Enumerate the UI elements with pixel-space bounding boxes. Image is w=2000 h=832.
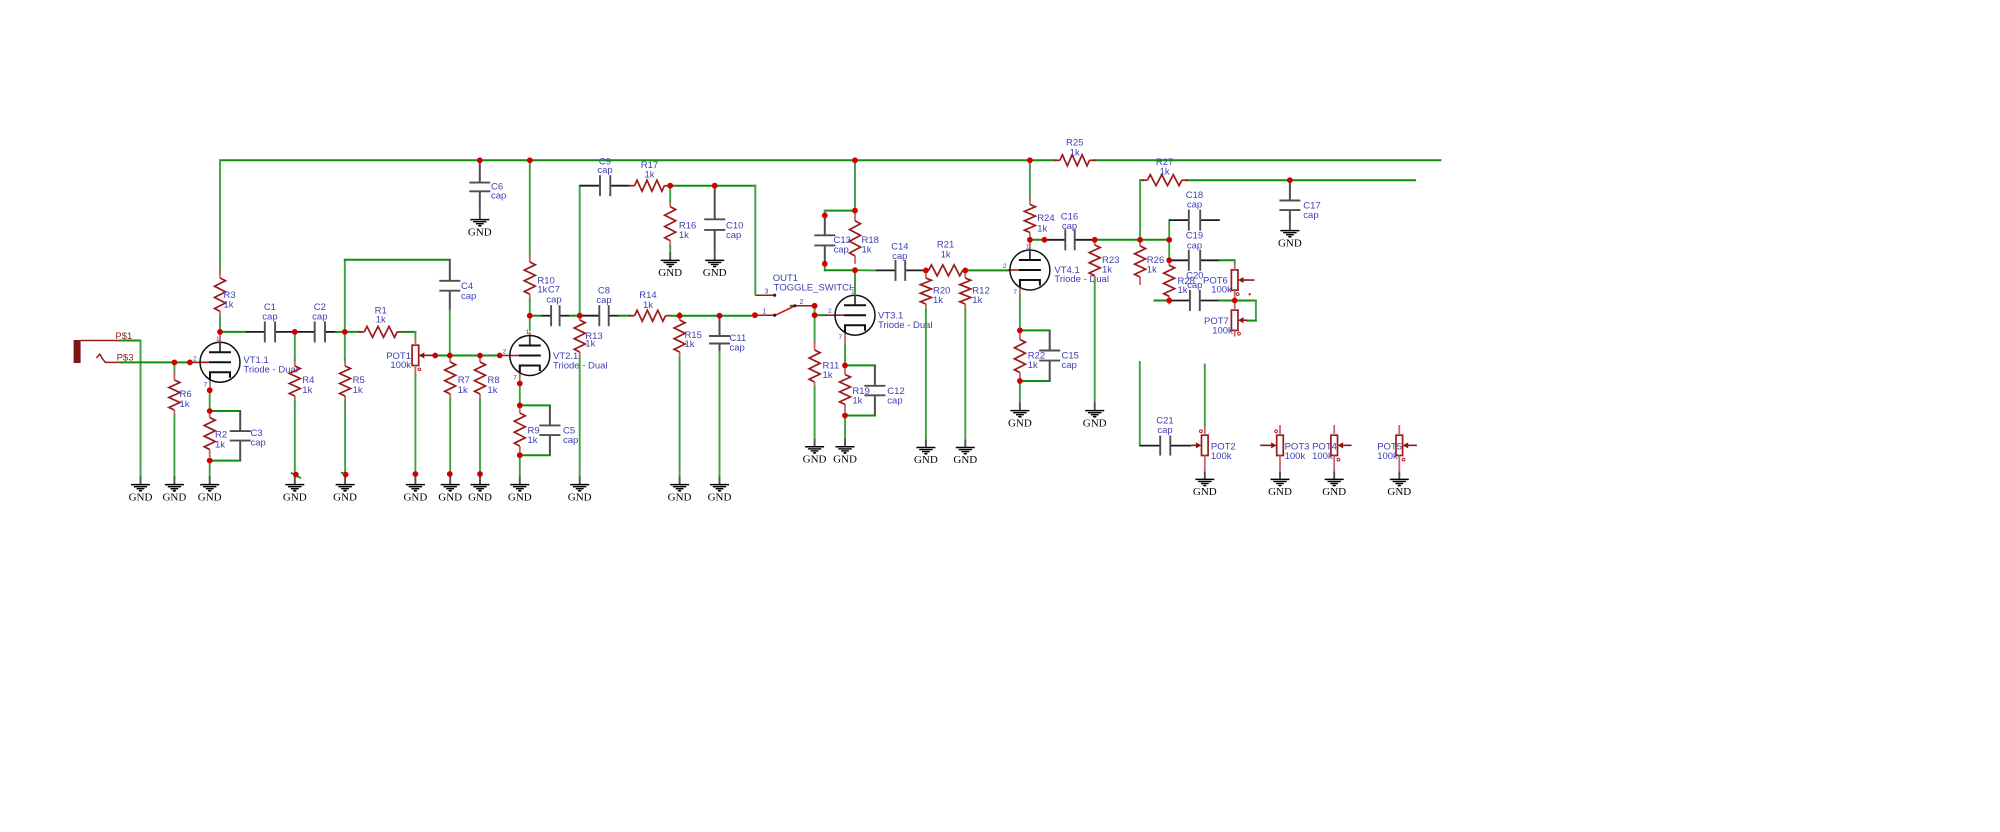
svg-text:7: 7 (1013, 289, 1017, 296)
resistor R22 (1014, 332, 1045, 381)
junction VT2 cathode pin (517, 381, 523, 387)
junction (477, 353, 483, 359)
svg-text:GND: GND (953, 454, 977, 466)
svg-text:1k: 1k (941, 250, 951, 261)
ground (C10) (703, 252, 727, 279)
wire rail2 right part (1186, 179, 1415, 181)
capacitor C1 (246, 302, 295, 343)
resistor R10 (524, 254, 555, 302)
svg-text:GND: GND (438, 491, 462, 503)
wire R5 to GND (344, 402, 346, 477)
junction R9/C5 bottom (517, 452, 523, 458)
wire R6 to GND (173, 416, 175, 477)
wire R22-C15 bottom link (1020, 380, 1050, 382)
wire junction to R16 (669, 186, 671, 202)
wire R2-C3 top link (210, 410, 241, 412)
svg-text:GND: GND (198, 491, 222, 503)
svg-text:cap: cap (1187, 280, 1202, 291)
resistor R13 (574, 312, 603, 360)
resistor R5 (340, 358, 365, 404)
svg-text:2: 2 (800, 299, 804, 306)
svg-text:cap: cap (892, 251, 907, 262)
capacitor C17 (1279, 180, 1320, 222)
capacitor C6 (469, 160, 506, 211)
wire POT3 leads (1279, 425, 1281, 435)
capacitor C13 (814, 215, 851, 263)
svg-text:1k: 1k (488, 385, 498, 396)
junction R19/C12 bottom (842, 413, 848, 419)
resistor R2 (204, 410, 227, 458)
potentiometer POT5 (1377, 435, 1417, 462)
capacitor C21 (1140, 415, 1191, 455)
wire C1/C2 node to R4 (294, 332, 296, 361)
svg-text:1: 1 (1026, 244, 1030, 251)
resistor R24 (1024, 196, 1054, 240)
junction C10 (712, 183, 718, 189)
junction (717, 313, 723, 319)
junction VT1 anode node (217, 329, 223, 335)
capacitor C10 (704, 186, 743, 253)
svg-text:1k: 1k (685, 339, 695, 350)
svg-text:7: 7 (204, 381, 208, 388)
svg-text:100k: 100k (1312, 451, 1333, 462)
junction VT1 cathode pin (207, 387, 213, 393)
junction C19/R28 top (1166, 257, 1172, 263)
junction VT4 anode node (1027, 237, 1033, 243)
junction (447, 471, 453, 477)
junction R2/C3 bottom (207, 458, 213, 464)
resistor R28 (1164, 257, 1195, 304)
potentiometer POT7 (1204, 310, 1248, 336)
capacitor C5 (539, 405, 578, 455)
wire R12 to GND (964, 310, 966, 440)
svg-text:GND: GND (1387, 486, 1411, 498)
wire R10 to VT2 anode node (529, 300, 531, 316)
triode tube VT1 (VT1.1 Triode - Dual) (190, 332, 298, 390)
junction R17/R16 (667, 183, 673, 189)
svg-text:100k: 100k (1212, 325, 1233, 336)
wire VT3 cathode down (844, 345, 846, 365)
capacitor C19 (1171, 231, 1220, 271)
wire B+ to R24 (1029, 160, 1031, 200)
resistor R9 (514, 405, 539, 454)
wire POT6 top lead (1234, 264, 1236, 270)
svg-text:GND: GND (1008, 417, 1032, 429)
svg-text:cap: cap (596, 295, 611, 306)
wire to VT3 grid (815, 314, 826, 316)
wire C20 left stub (1155, 300, 1172, 302)
wire R22 to GND (1019, 381, 1021, 403)
wire VT4 cathode down (1019, 296, 1021, 331)
wire stub down to C21 (1139, 362, 1141, 446)
wire C11 to GND (719, 352, 721, 477)
svg-text:GND: GND (833, 454, 857, 466)
svg-text:2: 2 (503, 349, 507, 356)
wire toggle pin2 down (814, 306, 816, 315)
svg-text:GND: GND (403, 491, 427, 503)
ground (VT4 cathode) (1008, 403, 1032, 430)
wire anode node link (1030, 239, 1045, 241)
resistor R14 (629, 290, 672, 321)
svg-text:cap: cap (312, 311, 327, 322)
wire B+ rail right part (1094, 159, 1440, 161)
svg-text:cap: cap (461, 291, 476, 302)
svg-text:100k: 100k (1211, 285, 1232, 296)
junction C9 drop / R13 (577, 313, 583, 319)
wire kink at R4 ground (291, 473, 301, 479)
junction (497, 353, 503, 359)
wire POT4 leads (1333, 425, 1335, 435)
svg-text:GND: GND (658, 267, 682, 279)
capacitor C15 (1039, 330, 1079, 381)
ground (VT2 cathode) (508, 477, 532, 504)
wire feedback link to C4 (345, 260, 450, 332)
svg-text:1k: 1k (1147, 264, 1157, 275)
ground (R13) (568, 477, 592, 504)
svg-text:TOGGLE_SWITCH: TOGGLE_SWITCH (774, 283, 856, 294)
junction (172, 360, 178, 366)
svg-text:GND: GND (162, 491, 186, 503)
junction VT3 grid node (812, 312, 818, 318)
wire R15 to GND (679, 358, 681, 477)
ground (R8) (468, 477, 492, 504)
junction R10 on rail (527, 157, 533, 163)
junction C20/R28 bottom (1166, 298, 1172, 304)
wire anode node to VT2 (529, 316, 531, 330)
wire R13 to GND (579, 358, 581, 477)
ground (R15) (668, 477, 692, 504)
resistor R7 (445, 354, 470, 402)
svg-text:1: 1 (216, 336, 220, 343)
junction (343, 472, 349, 478)
svg-text:GND: GND (1193, 486, 1217, 498)
svg-text:1k: 1k (972, 295, 982, 306)
junction C6 on rail (477, 157, 483, 163)
capacitor C4 (439, 260, 476, 310)
wire grid node to R11 (814, 315, 816, 344)
wire VT1 anode to C1 (220, 331, 246, 333)
svg-text:cap: cap (546, 295, 561, 306)
ground (POT3) (1268, 471, 1292, 498)
svg-text:Triode - Dual: Triode - Dual (878, 320, 933, 331)
junction POT6 bottom / POT7 top (1232, 298, 1238, 304)
capacitor C8 (580, 285, 619, 326)
svg-text:1k: 1k (1160, 167, 1170, 178)
resistor R26 (1135, 238, 1165, 285)
resistor R4 (289, 358, 314, 404)
input jack connector (74, 340, 121, 363)
svg-text:GND: GND (708, 491, 732, 503)
svg-text:cap: cap (563, 435, 578, 446)
wire R19 to GND (844, 416, 846, 439)
junction toggle pin1 (752, 312, 758, 318)
resistor R17 (629, 160, 671, 191)
wire B+ rail left part (220, 159, 1055, 161)
wire POT6 bottom to POT7 wiper (1235, 301, 1256, 321)
svg-text:cap: cap (597, 165, 612, 176)
resistor R12 (960, 270, 990, 312)
ground (POT5) (1387, 471, 1411, 498)
svg-text:1k: 1k (933, 295, 943, 306)
svg-text:cap: cap (1157, 425, 1172, 436)
svg-text:1k: 1k (215, 439, 225, 450)
junction R22/C15 bottom (1017, 378, 1023, 384)
wire B+ to R10 (529, 160, 531, 256)
wire R7 to GND (449, 400, 451, 477)
ground (R23) (1083, 403, 1107, 430)
svg-text:cap: cap (1062, 221, 1077, 232)
junction R19/C12 top (842, 363, 848, 369)
ground (VT1 cathode) (198, 477, 222, 504)
svg-text:1k: 1k (585, 339, 595, 350)
capacitor C11 (709, 316, 746, 354)
wire R24 to anode node (1029, 238, 1031, 240)
svg-text:cap: cap (251, 438, 266, 449)
wire R4 to GND (294, 402, 296, 477)
wire R17 to C10 and toggle pin3 (669, 186, 755, 295)
resistor R6 (169, 372, 192, 418)
wire POT2 leads (1204, 425, 1206, 435)
wire input to R6 (173, 362, 175, 374)
wire C13 bottom link (825, 264, 855, 270)
wire POT1 to GND (414, 375, 416, 477)
wire R11 to GND (814, 388, 816, 439)
wire up to C18 (1168, 220, 1170, 240)
wire R2-C3 bottom link (210, 460, 241, 462)
toggle switch OUT1 (755, 289, 815, 317)
junction C13 bottom pin (822, 261, 828, 267)
wire R8 to GND (479, 400, 481, 477)
svg-text:cap: cap (730, 343, 745, 354)
svg-text:100k: 100k (1211, 451, 1232, 462)
capacitor C14 (875, 241, 926, 281)
svg-text:cap: cap (726, 230, 741, 241)
capacitor C7 (541, 285, 571, 327)
resistor R11 (809, 342, 839, 390)
wire node up to C9 (579, 186, 581, 316)
svg-text:1k: 1k (302, 385, 312, 396)
wire R16 to GND (669, 246, 671, 252)
junction (677, 313, 683, 319)
junction C1/C2/R4 (292, 329, 298, 335)
svg-text:1k: 1k (679, 230, 689, 241)
svg-text:cap: cap (491, 190, 506, 201)
capacitor C12 (864, 365, 904, 415)
wire B+ to R18 node (854, 160, 856, 210)
potentiometer POT3 (1260, 430, 1309, 462)
svg-text:GND: GND (1083, 417, 1107, 429)
wire VT3 anode to C14 (855, 269, 875, 271)
ground (VT3 cathode) (833, 439, 857, 466)
junction (187, 360, 193, 366)
wire C7 to node (570, 315, 580, 317)
resistor R21 (923, 240, 969, 276)
junction R23 (1092, 237, 1098, 243)
svg-text:GND: GND (668, 491, 692, 503)
junction C17 (1287, 177, 1293, 183)
svg-text:1k: 1k (852, 395, 862, 406)
svg-text:cap: cap (1062, 360, 1077, 371)
junction C18 branch (1166, 237, 1172, 243)
svg-text:2: 2 (193, 355, 197, 362)
wire R9 to GND (519, 455, 521, 476)
wire VT2 anode to C7 (530, 315, 541, 317)
svg-text:GND: GND (129, 491, 153, 503)
svg-text:GND: GND (333, 491, 357, 503)
svg-text:1k: 1k (458, 385, 468, 396)
wire rail2 drop to R26 node (1139, 180, 1141, 240)
resistor R16 (665, 199, 697, 249)
svg-text:1k: 1k (528, 435, 538, 446)
junction R9/C5 top (517, 403, 523, 409)
potentiometer POT4 (1312, 435, 1352, 462)
junction R18/C13 top (852, 208, 858, 214)
ground (C6) (468, 212, 492, 239)
svg-text:2: 2 (828, 308, 832, 315)
junction anode pin (1042, 237, 1048, 243)
junction (293, 472, 299, 478)
wire POT1 wiper to VT2 grid (435, 355, 500, 357)
svg-text:1: 1 (763, 309, 767, 316)
junction rail/VT3 branch (852, 157, 858, 163)
svg-text:1k: 1k (862, 245, 872, 256)
resistor R8 (475, 354, 500, 402)
junction R12 (962, 268, 968, 274)
capacitor C3 (230, 411, 266, 461)
svg-text:GND: GND (1268, 486, 1292, 498)
svg-text:GND: GND (468, 226, 492, 238)
wire anode wire VT3 (854, 270, 856, 294)
capacitor C20 (1171, 270, 1219, 311)
wire stub down to POT2 (1204, 365, 1206, 426)
junction rail/R24 (1027, 157, 1033, 163)
wire R14 to toggle pin1 (670, 315, 755, 317)
resistor R27 (1141, 157, 1188, 186)
svg-text:1k: 1k (376, 315, 386, 326)
svg-text:1k: 1k (224, 300, 234, 311)
capacitor C2 (295, 302, 336, 343)
svg-text:1k: 1k (180, 399, 190, 410)
junction R20 (923, 268, 929, 274)
resistor R23 (1089, 237, 1119, 284)
svg-text:cap: cap (834, 245, 849, 256)
potentiometer POT1 (386, 345, 435, 371)
potentiometer POT2 (1191, 430, 1236, 462)
svg-text:7: 7 (513, 375, 517, 382)
svg-text:1k: 1k (1070, 148, 1080, 159)
svg-text:1k: 1k (1102, 264, 1112, 275)
wire C20 to POT6 bottom (1219, 300, 1234, 302)
ground (R20) (914, 440, 938, 467)
potentiometer POT6 (1203, 270, 1255, 296)
svg-text:2: 2 (1003, 263, 1007, 270)
svg-text:1k: 1k (353, 385, 363, 396)
wire C16 row to rail2 drop (1095, 239, 1140, 241)
svg-text:cap: cap (1303, 210, 1318, 221)
ground (C11) (708, 477, 732, 504)
svg-text:3: 3 (765, 289, 769, 296)
svg-text:cap: cap (887, 395, 902, 406)
svg-text:1k: 1k (823, 370, 833, 381)
triode tube VT3 (VT3.1 Triode - Dual) (825, 270, 932, 345)
ground (R11) (803, 439, 827, 466)
wire VT1 cathode to R2 (209, 390, 211, 411)
wire R21 to VT4 grid (965, 269, 1008, 271)
svg-text:100k: 100k (1285, 451, 1306, 462)
wire R19-C12 top link (845, 364, 875, 366)
junction R2/C3 top (207, 408, 213, 414)
svg-text:100k: 100k (1377, 451, 1398, 462)
svg-text:cap: cap (262, 311, 277, 322)
POT6 pin marker (1249, 293, 1251, 295)
wire P$1 to GND (120, 341, 141, 477)
junction rail2 drop / R26 (1137, 237, 1143, 243)
wire B+ to R3 (219, 160, 221, 272)
wire rail2 left stub (1140, 179, 1143, 181)
resistor R19 (840, 367, 870, 413)
capacitor C18 (1169, 190, 1220, 231)
resistor R3 (215, 270, 236, 319)
svg-text:GND: GND (914, 454, 938, 466)
wire VT2 cathode to R9 (519, 384, 521, 406)
resistor R20 (920, 270, 950, 312)
junction toggle pin2 (812, 303, 818, 309)
wire POT7 leads (1234, 301, 1236, 311)
wire down to C19 node (1168, 240, 1170, 260)
wire C4 to POT1 row (449, 310, 451, 356)
svg-text:1k: 1k (643, 300, 653, 311)
wire POT1 leads (414, 339, 416, 346)
triode tube VT2 (VT2.1 Triode - Dual) (500, 329, 608, 384)
wire R23 to GND (1094, 281, 1096, 403)
wire R9-C5 bottom link (520, 454, 550, 456)
junction (432, 353, 438, 359)
wire kink at R5 ground (341, 472, 346, 474)
ground (POT2) (1193, 471, 1217, 498)
wire R22-C15 top link (1020, 329, 1050, 331)
wire C19 to POT6 (1220, 260, 1235, 264)
wire C2 to node (336, 331, 345, 333)
ground (R5) (333, 477, 357, 504)
ground (POT4) (1322, 471, 1346, 498)
ground (R7) (438, 477, 462, 504)
svg-text:GND: GND (508, 491, 532, 503)
svg-text:GND: GND (468, 491, 492, 503)
ground (R16) (658, 252, 682, 279)
ground (R4) (283, 477, 307, 504)
junction C2/R5/R1/C4 (342, 329, 348, 335)
wire P$3 input net (121, 361, 191, 363)
wire R3 to VT1 anode node (219, 317, 221, 332)
wire row to C18 branch (1140, 239, 1169, 241)
wire R1 to POT1 (402, 332, 416, 340)
junction R18/C13 bottom / VT3 anode (852, 267, 858, 273)
svg-text:GND: GND (1322, 486, 1346, 498)
svg-text:GND: GND (283, 491, 307, 503)
resistor R25 (1054, 138, 1096, 166)
capacitor C16 (1044, 211, 1094, 250)
wire R19-C12 bottom link (845, 415, 875, 417)
junction C13 top pin (822, 213, 828, 219)
wire R9-C5 top link (520, 404, 550, 406)
svg-text:GND: GND (1278, 237, 1302, 249)
junction (413, 471, 419, 477)
svg-text:cap: cap (1187, 240, 1202, 251)
ground (POT1) (403, 477, 427, 504)
svg-text:cap: cap (1187, 200, 1202, 211)
svg-text:Triode - Dual: Triode - Dual (1054, 274, 1109, 285)
svg-text:GND: GND (803, 454, 827, 466)
